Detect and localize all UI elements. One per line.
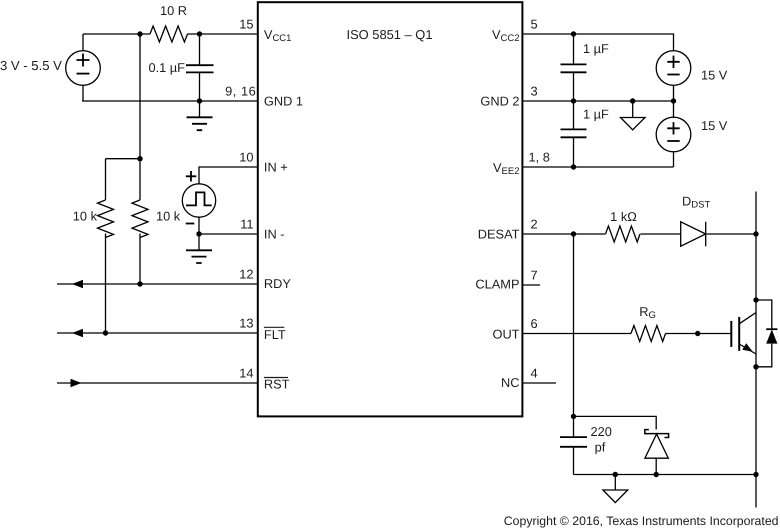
resistor R_G — [631, 326, 666, 342]
ground G3 triangle — [632, 101, 634, 118]
svg-text:RDY: RDY — [264, 276, 291, 291]
wire RST pin 14 — [57, 382, 258, 384]
zener D3 — [645, 430, 669, 438]
svg-text:14: 14 — [239, 365, 253, 380]
wire source top — [82, 34, 84, 51]
svg-text:DESAT: DESAT — [478, 227, 520, 242]
resistor R4 1kOhm — [606, 226, 641, 242]
wire IN- pin 11 — [199, 217, 258, 234]
chip U1 ISO5851 outline — [258, 2, 523, 416]
capacitor C3 1uF — [561, 129, 587, 137]
arrow RDY — [72, 280, 83, 288]
svg-text:FLT: FLT — [264, 327, 286, 342]
svg-text:IN +: IN + — [264, 160, 288, 175]
svg-text:12: 12 — [239, 266, 253, 281]
svg-text:10 k: 10 k — [73, 209, 98, 224]
capacitor C4 220pF — [573, 416, 575, 474]
svg-text:GND 2: GND 2 — [480, 94, 519, 109]
svg-text:1 kΩ: 1 kΩ — [610, 209, 637, 224]
svg-text:GND 1: GND 1 — [264, 94, 303, 109]
svg-text:0.1 µF: 0.1 µF — [148, 60, 185, 75]
capacitor C1 0.1uF — [186, 65, 214, 72]
IGBT Q1 emitter lead — [739, 344, 756, 354]
svg-text:9, 16: 9, 16 — [225, 83, 256, 98]
svg-text:2: 2 — [531, 216, 538, 231]
svg-text:RST: RST — [264, 376, 290, 391]
svg-text:RG: RG — [639, 304, 656, 321]
wire bottom rail — [574, 474, 757, 476]
wire cap3 branch — [573, 101, 575, 167]
svg-text:Copyright © 2016, Texas Instru: Copyright © 2016, Texas Instruments Inco… — [504, 514, 779, 528]
wire FLT pin 13 — [57, 332, 258, 334]
wire cap branch — [199, 34, 201, 101]
overline FLT — [264, 326, 284, 328]
IGBT Q1 emitter arrow — [742, 343, 753, 352]
wire VCC2 pin 5 — [523, 34, 674, 51]
capacitor C2 1uF — [561, 64, 587, 72]
junction dots — [137, 31, 142, 36]
ground G4 triangle — [614, 475, 616, 491]
source V4 15V bottom — [673, 101, 675, 117]
svg-text:3: 3 — [531, 83, 538, 98]
svg-text:1 µF: 1 µF — [583, 107, 609, 122]
svg-text:ISO 5851 – Q1: ISO 5851 – Q1 — [347, 27, 433, 42]
svg-text:7: 7 — [531, 267, 538, 282]
svg-text:6: 6 — [531, 316, 538, 331]
wire OUT pin 6 — [523, 333, 732, 335]
svg-text:11: 11 — [240, 216, 253, 231]
wire left branch vertical — [105, 159, 107, 333]
wire pullup vertical — [139, 34, 141, 284]
svg-text:10: 10 — [239, 149, 253, 164]
IGBT Q1 gate bar — [730, 321, 732, 347]
diode D2 freewheel — [766, 328, 777, 330]
svg-text:CLAMP: CLAMP — [475, 277, 519, 292]
overline RST — [264, 377, 288, 379]
wire NC pin 4 stub — [523, 382, 557, 384]
svg-text:13: 13 — [239, 315, 253, 330]
wire VCC1 pin 15 — [83, 33, 258, 35]
source V1 3V-5.5V — [66, 51, 101, 86]
resistor R 10R — [150, 26, 188, 42]
wire V3 bottom — [673, 85, 675, 101]
wire RDY pin 12 — [57, 283, 258, 285]
ground G1 — [199, 101, 201, 117]
svg-text:NC: NC — [501, 375, 519, 390]
svg-text:220: 220 — [591, 424, 612, 439]
wire DESAT vertical — [573, 234, 575, 416]
wire source bottom — [82, 85, 84, 101]
svg-text:15: 15 — [239, 16, 253, 31]
ground G2 — [198, 234, 200, 250]
svg-text:1, 8: 1, 8 — [529, 149, 550, 164]
svg-text:3 V - 5.5 V: 3 V - 5.5 V — [0, 58, 62, 73]
wire IN+ pin 10 — [199, 167, 258, 184]
svg-text:5: 5 — [531, 16, 538, 31]
wire GND2 pin 3 — [523, 100, 674, 102]
svg-text:1 µF: 1 µF — [583, 41, 609, 56]
IGBT Q1 collector lead — [739, 313, 756, 324]
diode D_DST — [681, 222, 706, 246]
svg-text:10 k: 10 k — [156, 209, 181, 224]
wire DESAT pin 2 — [523, 233, 757, 235]
IGBT Q1 body bar — [738, 317, 740, 351]
svg-text:pf: pf — [595, 440, 606, 455]
wire branch horizontal — [106, 158, 141, 160]
svg-text:DDST: DDST — [682, 194, 710, 211]
svg-text:15 V: 15 V — [701, 67, 728, 82]
svg-text:4: 4 — [531, 365, 538, 380]
arrow RST — [71, 379, 82, 387]
resistor R2 10k right — [132, 200, 148, 238]
wire GND1 pin 9,16 — [82, 100, 258, 102]
svg-text:15 V: 15 V — [701, 118, 728, 133]
svg-text:OUT: OUT — [492, 327, 519, 342]
wire blanking top — [574, 416, 657, 429]
svg-text:10 R: 10 R — [160, 3, 187, 18]
pulse source V2 — [182, 184, 215, 217]
wire collector bus — [755, 192, 757, 508]
arrow FLT — [72, 329, 83, 337]
source V3 15V top — [656, 51, 691, 86]
diode D2 freewheel branch wires — [756, 300, 772, 367]
wire CLAMP pin 7 stub — [523, 284, 541, 286]
wire cap2 branch — [573, 34, 575, 101]
svg-text:IN -: IN - — [264, 227, 285, 242]
wire VEE2 pin 1,8 — [523, 152, 674, 167]
resistor R3 10k left — [98, 200, 114, 238]
